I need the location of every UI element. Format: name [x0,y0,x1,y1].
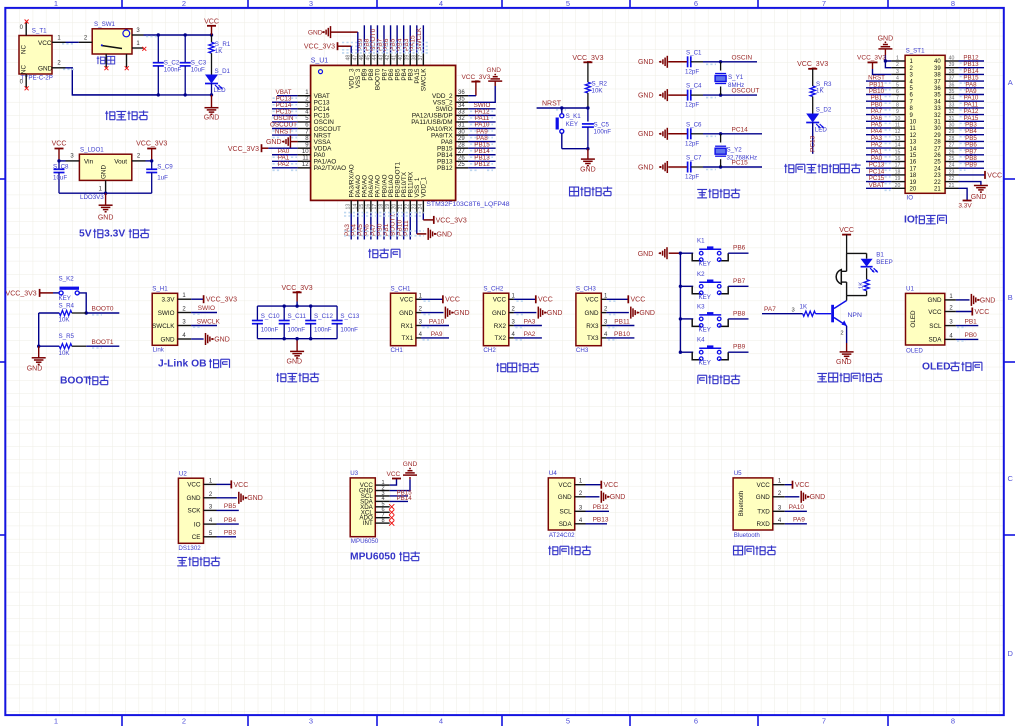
key K2 [680,285,693,287]
svg-text:12pF: 12pF [685,140,699,147]
S_CH1 pin 1 VCC [416,298,421,300]
svg-text:SWCLK: SWCLK [421,68,428,91]
svg-text:3.3V: 3.3V [958,203,972,210]
capacitor S_C9 1uF [151,161,153,169]
header right pin 39 [945,67,959,69]
svg-text:34: 34 [934,99,941,105]
svg-text:34: 34 [949,96,955,102]
oled pin 2 VCC [945,311,956,313]
svg-text:3.3V: 3.3V [104,229,125,240]
wire and net label PB13 [468,160,495,162]
capacitor S_C13 100nF [336,306,338,320]
svg-text:PB3: PB3 [224,530,237,537]
wire and net label PB14 mpu pin4 [390,500,408,502]
wire and net label PB13 at24 pin4 [586,523,608,525]
svg-text:15: 15 [910,153,917,159]
wire and net label PC14 [272,108,298,110]
svg-text:8: 8 [381,518,384,524]
transistor Q1 NPN [831,305,834,323]
svg-text:36: 36 [934,86,941,92]
mcu pin 22 PB11/RX [409,200,411,213]
wire and net label PB4 right [959,134,985,136]
wire and net label PA0 [272,154,298,156]
svg-text:TX3: TX3 [587,335,599,342]
mcu pin 26 PB13 [456,160,469,162]
svg-text:31: 31 [949,116,955,122]
svg-text:27: 27 [949,143,955,149]
svg-text:S_LDO1: S_LDO1 [80,147,104,154]
svg-text:LED: LED [815,127,828,134]
wire and power VCC_3V3 jlink pin1 [191,298,204,300]
svg-text:43: 43 [379,55,385,61]
svg-text:20: 20 [392,204,398,210]
svg-text:BEEP: BEEP [876,259,893,266]
wire and net label OSCOUT [272,128,298,130]
svg-text:46: 46 [359,55,365,61]
svg-text:VCC_3V3: VCC_3V3 [797,61,828,68]
svg-text:7: 7 [822,717,826,726]
wire and net label PA4 left [866,134,891,136]
pin 0 top of S_T1 [25,23,27,36]
svg-text:VCC_3V3: VCC_3V3 [282,285,313,292]
S_CH3 pin 1 VCC [601,298,606,300]
wire and net label PA9 [468,134,495,136]
wire and net label SWCLK [422,25,424,53]
wire alarm bottom node [847,295,867,297]
wire key bus vertical [679,253,681,352]
svg-text:14: 14 [352,204,358,210]
svg-text:PA9: PA9 [431,331,443,338]
wire and net label PA7 base [762,313,803,315]
pin 1 VCC stub of S_T1 [52,41,66,43]
wire and net label NRST left [866,80,891,82]
wire and net label PA8 [468,141,495,143]
svg-text:4: 4 [896,76,899,82]
oled pin 4 SDA [945,338,956,340]
mcu pin 17 PA7/AO [376,200,378,213]
svg-text:18: 18 [895,169,901,175]
header right pin 35 [945,94,959,96]
mcu pin 25 PB12 [456,167,469,169]
led D3 alarm [861,259,873,267]
wire and net label PA10 right [959,100,985,102]
svg-text:42: 42 [385,55,391,61]
svg-text:28: 28 [458,142,465,148]
wire and net label PB14 [468,154,495,156]
mcu pin 27 PB14 [456,154,469,156]
svg-text:SDA: SDA [559,521,573,528]
svg-text:KEY: KEY [699,326,711,333]
mcu pin 36 VDD_2 [456,95,469,97]
svg-text:38: 38 [949,69,955,75]
svg-text:5: 5 [566,0,570,8]
header right pin 25 [945,161,959,163]
header right pin 34 [945,100,959,102]
mcu pin 20 PB2/BOOT1 [396,200,398,213]
svg-text:KEY: KEY [566,121,578,128]
module U5 Bluetooth body [733,478,773,530]
svg-text:U3: U3 [350,470,358,477]
wire and net label PB5 [396,25,398,53]
svg-text:20: 20 [895,183,901,189]
wire and net label PB3 [409,25,411,53]
header right pin 30 [945,127,959,129]
svg-text:PB11: PB11 [614,319,630,326]
svg-text:10: 10 [895,116,901,122]
mcu pin 42 PB6 [390,53,392,66]
svg-text:GND: GND [547,310,563,317]
svg-text:3: 3 [309,717,313,726]
svg-text:S_C13: S_C13 [340,313,359,320]
svg-text:35: 35 [458,96,465,102]
module U1 OLED body [906,293,945,345]
title main chip [368,249,378,258]
connector S_T1 TYPE-C-2P [19,36,52,75]
svg-text:24: 24 [418,204,424,210]
wire and net label PB10 [403,214,405,240]
mcu pin 4 PC15 [298,114,311,116]
wire and net label PB8 [728,318,748,320]
wire and net label PC14 left [866,174,891,176]
wire and net label PB10 S_CH3 pin4 [606,337,634,339]
mcu pin 5 OSCIN [298,121,311,123]
title filter circuit [276,373,286,382]
bt pin 2 GND [773,496,785,498]
mcu pin 39 PB3 [409,53,411,66]
wire and net label BOOT0 [376,25,378,53]
mcu pin 13 PA3/RX/AO [350,200,352,213]
svg-text:16: 16 [895,156,901,162]
mcu pin 23 VSS_1 [416,200,418,213]
mcu pin 8 VSSA [298,141,311,143]
svg-text:GND: GND [558,494,572,501]
svg-text:PB6: PB6 [733,245,746,252]
ds1302 pin 1 VCC [204,483,217,485]
svg-text:29: 29 [934,133,941,139]
wire and net label PB1 [390,214,392,240]
svg-text:15: 15 [359,204,365,210]
svg-text:22: 22 [405,204,411,210]
svg-text:GND: GND [454,310,470,317]
power port GND filter [296,339,298,352]
svg-text:S_D2: S_D2 [816,107,832,114]
svg-text:VCC: VCC [493,297,507,304]
mpu6050 pin 4 SDA [375,500,389,502]
svg-text:PA2/TX/AO: PA2/TX/AO [314,165,347,172]
svg-text:20: 20 [910,187,917,193]
svg-text:37: 37 [949,76,955,82]
svg-text:GND: GND [161,336,175,343]
wire and net label PA12 [468,114,495,116]
svg-text:28: 28 [949,136,955,142]
capacitor S_C10 100nF [256,306,258,320]
svg-text:K1: K1 [697,238,705,245]
svg-text:GND: GND [756,494,770,501]
key K4 [680,351,693,353]
svg-text:VCC: VCC [631,297,646,304]
svg-text:23: 23 [949,169,955,175]
led S_D1 [205,75,218,84]
power port VCC header pin 23 [959,174,986,176]
svg-text:Bluetooth: Bluetooth [734,532,761,539]
svg-text:VCC_3V3: VCC_3V3 [228,146,259,153]
jlink pin 2 SWIO [178,312,192,314]
wire and net label PA5 left [866,127,891,129]
svg-text:SDA: SDA [929,337,943,344]
wire and net label PA9 S_CH1 pin4 [421,337,449,339]
wire NRST node down to cap [587,108,589,122]
mcu pin 32 PA11/USB/DM [456,121,469,123]
resistor 1K base [803,311,816,316]
svg-text:SWCLK: SWCLK [197,318,221,325]
header left pin 16 [891,161,905,163]
svg-text:S_CH3: S_CH3 [576,286,597,293]
mcu pin 18 PB0/AO [383,200,385,213]
mcu pin 12 PA2/TX/AO [298,167,311,169]
svg-text:5: 5 [896,82,899,88]
wire and net label PA11 right [959,107,985,109]
svg-text:12: 12 [910,133,917,139]
svg-text:32: 32 [949,109,955,115]
header right pin 27 [945,147,959,149]
S_CH3 pin 3 RX3 [601,325,606,327]
wire and net label PC13 [272,101,298,103]
svg-text:1K: 1K [859,282,865,289]
svg-text:33: 33 [949,102,955,108]
svg-text:RX3: RX3 [586,323,599,330]
svg-text:PC13: PC13 [810,135,817,152]
wire and net label OSCOUT [703,94,757,96]
wire and net label PB7 [383,25,385,53]
wire and net label PA3 left [866,140,891,142]
svg-text:31: 31 [934,120,941,126]
svg-text:GND: GND [639,310,655,317]
capacitor S_C7 12pF [668,166,687,168]
svg-text:GND: GND [38,65,53,72]
wire and power VCC S_CH3 pin1 [606,298,628,300]
key K3 [680,318,693,320]
svg-text:S_CH1: S_CH1 [391,286,412,293]
svg-text:S_C6: S_C6 [686,121,702,128]
wire and net label PA15 right [959,120,985,122]
header right pin 22 [945,181,959,183]
svg-text:44: 44 [372,55,378,61]
svg-text:VCC: VCC [38,40,52,47]
wire and net label PC15 [703,166,762,168]
wire and net label PB6 [390,25,392,53]
header left pin 12 [891,134,905,136]
svg-text:38: 38 [411,55,417,61]
wire and net label PA2 left [866,147,891,149]
mcu pin 31 PA10/RX [456,128,469,130]
wire and power GND ds1302 pin2 [217,497,237,499]
wire and net label PB9 right [959,167,985,169]
svg-text:S_CH2: S_CH2 [483,286,504,293]
svg-text:GND: GND [247,495,263,502]
svg-text:23: 23 [411,204,417,210]
svg-text:35: 35 [949,89,955,95]
wire bottom rail of LDO [59,192,152,194]
resistor S_R2 10K [585,82,590,93]
svg-text:SWIO: SWIO [198,305,215,312]
svg-text:34: 34 [458,103,465,109]
wire and net label NRST [272,134,298,136]
svg-text:GND: GND [492,310,506,317]
wire and power VCC S_CH2 pin1 [514,298,536,300]
title program run indicator [784,164,794,173]
svg-text:GND: GND [610,494,626,501]
header left pin 8 [891,107,905,109]
wire and net label BOOT1 [396,214,398,240]
mcu pin 9 VDDA [298,147,311,149]
svg-text:32: 32 [458,116,465,122]
mcu pin 38 PA15 [416,53,418,66]
mcu pin 15 PA5/AO [363,200,365,213]
wire and net label PB12 [468,167,495,169]
wire and net label PB7 [728,285,748,287]
svg-text:K3: K3 [697,303,705,310]
svg-text:IO: IO [907,194,914,201]
svg-text:15: 15 [895,149,901,155]
svg-text:3: 3 [309,0,313,8]
svg-text:VCC: VCC [52,140,67,147]
svg-text:19: 19 [910,180,917,186]
svg-text:KEY: KEY [699,360,711,367]
wire and net label PA11 [468,121,495,123]
svg-text:13: 13 [895,136,901,142]
jlink pin 3 SWCLK [178,325,192,327]
svg-text:S_C11: S_C11 [288,313,307,320]
wire top rail VCC [144,34,212,36]
svg-text:GND: GND [437,231,453,238]
svg-text:S_R4: S_R4 [59,303,75,310]
wire bottom rail [72,94,211,96]
mcu pin 28 PB15 [456,147,469,149]
power port 3.3V header pin 21 [959,188,968,200]
svg-text:PB13: PB13 [593,517,609,524]
header right pin 36 [945,87,959,89]
svg-text:S_Y1: S_Y1 [728,74,744,81]
capacitor S_C5 100nF [582,123,594,125]
svg-text:26: 26 [949,149,955,155]
wire and net label PB12 at24 pin3 [586,510,610,512]
mcu pin 47 VSS_3 [357,53,359,66]
wire and net label PB15 [468,147,495,149]
svg-text:VCC: VCC [928,309,942,316]
header left pin 5 [891,87,905,89]
wire Vout to VCC_3V3 [146,160,152,162]
bt pin 1 VCC [773,484,785,486]
pin 2 GND stub of S_T1 [52,67,66,69]
svg-text:VCC: VCC [795,482,810,489]
no-connect X mpu pin 7 [389,515,394,520]
wire and net label PA3 S_CH2 pin3 [514,325,542,327]
svg-text:19: 19 [385,204,391,210]
svg-text:INT: INT [363,520,373,527]
oled pin 3 SCL [945,325,956,327]
svg-text:K4: K4 [697,337,705,344]
svg-text:VCC: VCC [975,309,990,316]
svg-text:A: A [1008,78,1013,87]
svg-text:DS1302: DS1302 [178,545,201,552]
mpu6050 pin 1 VCC [375,484,389,486]
mcu pin 46 PB9 [363,53,365,66]
mcu pin 30 PA9/TX [456,134,469,136]
svg-text:24: 24 [949,163,955,169]
svg-text:3.3V: 3.3V [162,297,176,304]
header left pin 9 [891,114,905,116]
no-connect X mpu pin 6 [389,510,394,515]
wire and net label SWIO [468,108,495,110]
svg-text:32.768KHz: 32.768KHz [727,154,758,161]
S_CH1 pin 3 RX1 [416,325,421,327]
svg-text:SCL: SCL [559,509,572,516]
svg-text:33: 33 [458,110,465,116]
svg-text:5: 5 [566,717,570,726]
svg-text:GND: GND [403,461,418,468]
title serial circuit [496,363,506,372]
svg-text:PB12: PB12 [474,161,490,168]
svg-text:VBAT: VBAT [869,182,885,189]
ds1302 pin 4 IO [204,523,217,525]
header right pin 32 [945,114,959,116]
header left pin 1 [891,60,905,62]
svg-text:K2: K2 [697,271,705,278]
svg-text:25: 25 [934,160,941,166]
header left pin 7 [891,100,905,102]
mcu pin 41 PB5 [396,53,398,66]
svg-text:100nF: 100nF [314,327,332,334]
wire and power VCC bt pin1 [785,484,793,486]
svg-text:GND: GND [638,93,654,100]
wire and power VCC S_CH1 pin1 [421,298,443,300]
svg-text:40: 40 [949,56,955,62]
svg-text:37: 37 [934,79,941,85]
header S_ST1 body [905,55,945,193]
capacitor S_C2 100nF [157,35,159,63]
svg-text:GND: GND [810,494,826,501]
svg-text:BOOT1: BOOT1 [92,339,114,346]
at24c02 pin 2 GND [575,496,586,498]
wire and power GND mpu pin2 [390,479,410,490]
wire and net label OSCIN [703,61,757,63]
svg-text:GND: GND [27,365,43,372]
svg-text:S_K2: S_K2 [59,276,75,283]
svg-text:21: 21 [398,204,404,210]
svg-text:29: 29 [949,129,955,135]
svg-text:41: 41 [392,55,398,61]
switch label kai-guan [97,56,105,64]
pin 2 stub Vout [132,160,146,162]
svg-text:GND: GND [98,215,114,222]
svg-text:VCC: VCC [538,297,553,304]
header left pin 15 [891,154,905,156]
header right pin 21 [945,187,959,189]
svg-text:GND: GND [187,495,201,502]
header right pin 26 [945,154,959,156]
header right pin 28 [945,140,959,142]
wire and net label PA5 [363,214,365,240]
power port GND header pin 22 [959,182,981,186]
key S_K2 boot button [53,292,59,294]
header left pin 18 [891,174,905,176]
svg-text:VCC: VCC [445,297,460,304]
at24c02 pin 3 SCL [575,510,586,512]
svg-text:GND: GND [204,115,220,122]
header left pin 11 [891,127,905,129]
no-connect X mpu pin 8 [389,521,394,526]
wire and net label PB4 ds1302 pin4 [217,523,239,525]
